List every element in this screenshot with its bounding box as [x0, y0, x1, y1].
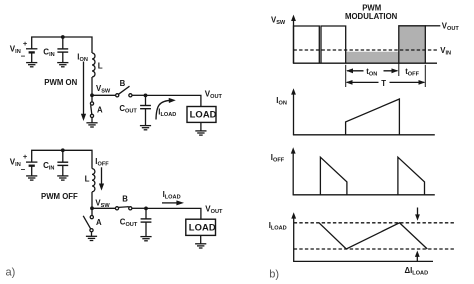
- svg-text:L: L: [85, 175, 90, 184]
- svg-text:PWM ON: PWM ON: [44, 78, 77, 87]
- wire top rail (PWM ON): [32, 37, 92, 53]
- switch B (closed, bottom): [115, 207, 118, 210]
- pulse 2 outline: [321, 26, 346, 63]
- I_LOAD curved arrow (top): [156, 100, 172, 119]
- svg-text:PWM OFF: PWM OFF: [41, 192, 78, 201]
- node top-rail junction: [61, 35, 65, 39]
- wire switch B to output node (bottom): [132, 207, 146, 209]
- I_OFF sawtooth 1: [320, 157, 347, 195]
- wire L to V_SW node (bottom): [91, 192, 93, 209]
- svg-text:B: B: [122, 195, 128, 204]
- svg-text:A: A: [97, 105, 103, 114]
- t_OFF pulse outline: [399, 26, 426, 63]
- ground (switch A top): [86, 123, 97, 127]
- shaded t_ON low region: [346, 52, 398, 63]
- svg-text:b): b): [269, 268, 279, 280]
- I_LOAD triangle waveform: [319, 223, 427, 249]
- wire V_SW to switch B: [92, 94, 116, 96]
- ground (battery top): [26, 63, 37, 67]
- ripple down arrow: [417, 208, 419, 216]
- ground (C_OUT bottom): [140, 237, 151, 241]
- node V_SW (top): [90, 93, 94, 97]
- wire node to V_OUT corner: [146, 95, 201, 106]
- svg-text:a): a): [6, 267, 16, 279]
- wire C_IN drop: [62, 37, 64, 49]
- node top-rail junction (bottom): [61, 148, 65, 152]
- ripple up arrow: [416, 256, 418, 262]
- svg-text:B: B: [120, 79, 126, 88]
- capacitor C_OUT (top): [145, 95, 147, 105]
- node output (top): [144, 94, 148, 98]
- I_ON current arrow: [83, 62, 85, 115]
- battery V_IN (bottom): [26, 162, 37, 166]
- V_SW baseline: [293, 62, 437, 64]
- I_LOAD upper dashed level: [294, 222, 455, 224]
- I_OFF sawtooth 2: [398, 157, 425, 195]
- I_LOAD lower dashed level: [294, 248, 455, 250]
- wire V_SW to switch B (bottom): [92, 207, 115, 209]
- svg-text:+: +: [23, 39, 28, 48]
- battery V_IN (top): [26, 49, 37, 53]
- svg-text:LOAD: LOAD: [190, 108, 217, 119]
- tick t_ON end: [398, 63, 400, 76]
- I_OFF axis vertical: [292, 152, 294, 195]
- capacitor C_IN (bottom): [57, 162, 68, 165]
- svg-text:–: –: [21, 165, 26, 174]
- svg-text:LOAD: LOAD: [189, 221, 216, 232]
- shaded t_OFF high pulse: [399, 26, 424, 62]
- t_ON span arrow: [347, 70, 397, 72]
- ground (battery bottom): [26, 176, 37, 180]
- wire node to V_OUT corner (bottom): [146, 208, 201, 219]
- tick t_OFF end: [424, 65, 426, 87]
- ground (load top): [195, 131, 206, 135]
- switch B (open, top): [116, 94, 119, 97]
- T span arrow: [347, 81, 425, 83]
- wire L to V_SW node: [91, 77, 93, 95]
- svg-text:MODULATION: MODULATION: [345, 12, 398, 21]
- ground (switch A bottom): [86, 236, 97, 240]
- svg-text:A: A: [96, 218, 102, 227]
- I_ON ramp waveform: [346, 99, 400, 135]
- I_ON baseline: [293, 134, 435, 136]
- wire load to ground (bottom): [200, 235, 202, 243]
- wire switch B to output node: [132, 94, 146, 96]
- I_OFF current arrow: [101, 167, 103, 184]
- ground (C_IN top): [57, 63, 68, 67]
- V_SW axis vertical: [293, 20, 295, 64]
- node output (bottom): [144, 207, 148, 211]
- switch A (closed, top): [91, 95, 93, 102]
- tick t_ON start: [345, 65, 347, 87]
- I_LOAD baseline: [293, 260, 433, 262]
- svg-text:T: T: [381, 79, 386, 88]
- wire C_IN drop (bottom): [62, 150, 64, 162]
- ground (C_IN bottom): [57, 176, 68, 180]
- wire load to ground (top): [200, 122, 202, 130]
- pulse 1 outline: [294, 26, 320, 63]
- V_OUT level lead line: [425, 25, 440, 27]
- inductor L (bottom): [92, 169, 95, 192]
- switch A (open, bottom): [91, 208, 93, 215]
- capacitor C_IN (top): [57, 49, 68, 52]
- I_ON axis vertical: [293, 93, 295, 135]
- capacitor C_OUT (bottom): [145, 208, 147, 218]
- I_LOAD axis vertical: [293, 217, 295, 261]
- I_OFF baseline: [293, 194, 435, 196]
- wire top rail (PWM OFF): [32, 150, 92, 168]
- inductor L (top): [92, 53, 95, 77]
- load box (bottom): [186, 219, 216, 235]
- ground (C_OUT top): [140, 126, 151, 130]
- ground (load bottom): [195, 244, 206, 248]
- node V_SW (bottom): [90, 206, 94, 210]
- I_LOAD straight arrow (bottom): [162, 202, 178, 204]
- load box (top): [187, 107, 216, 123]
- svg-text:L: L: [98, 62, 103, 71]
- svg-text:+: +: [23, 152, 28, 161]
- V_IN dashed level line: [294, 49, 439, 51]
- svg-text:–: –: [21, 52, 26, 61]
